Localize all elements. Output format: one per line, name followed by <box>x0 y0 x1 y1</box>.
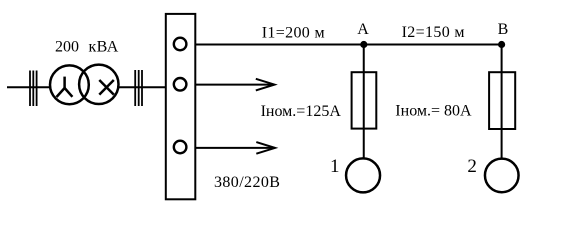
svg-text:Іном.= 80А: Іном.= 80А <box>395 102 472 119</box>
svg-text:I2=150 м: I2=150 м <box>402 24 465 41</box>
svg-text:А: А <box>357 21 369 38</box>
svg-text:I1=200 м: I1=200 м <box>262 25 325 42</box>
svg-text:1: 1 <box>330 156 340 177</box>
svg-text:Іном.=125А: Іном.=125А <box>261 103 342 120</box>
svg-text:В: В <box>498 21 509 38</box>
svg-text:200: 200 <box>55 39 79 56</box>
svg-text:2: 2 <box>467 156 477 177</box>
svg-text:кВА: кВА <box>89 39 119 56</box>
svg-text:380/220В: 380/220В <box>214 174 280 191</box>
